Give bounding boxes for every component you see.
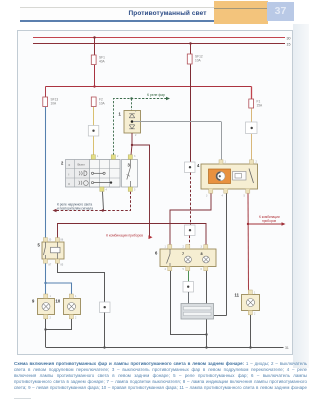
svg-text:и повторителям сигнала: и повторителям сигнала xyxy=(57,207,93,211)
svg-text:К реле фар: К реле фар xyxy=(147,93,165,97)
svg-text:2: 2 xyxy=(61,161,64,166)
svg-text:10A: 10A xyxy=(51,102,58,106)
svg-text:3: 3 xyxy=(134,155,136,158)
svg-text:9: 9 xyxy=(32,299,35,304)
svg-text:8: 8 xyxy=(201,252,203,256)
svg-text:30: 30 xyxy=(49,239,52,242)
svg-text:11: 11 xyxy=(235,293,240,298)
svg-text:1: 1 xyxy=(254,292,256,295)
svg-text:2: 2 xyxy=(254,313,256,316)
svg-text:10A: 10A xyxy=(195,59,202,63)
svg-text:87: 87 xyxy=(49,264,52,267)
svg-text:3: 3 xyxy=(201,246,203,249)
svg-text:1: 1 xyxy=(119,112,122,117)
svg-text:3: 3 xyxy=(206,195,208,198)
svg-text:приборов: приборов xyxy=(262,219,276,223)
svg-text:30: 30 xyxy=(287,37,291,41)
svg-text:2: 2 xyxy=(183,246,185,249)
svg-text:4: 4 xyxy=(165,268,167,271)
svg-text:6: 6 xyxy=(201,268,203,271)
svg-text:86: 86 xyxy=(61,239,64,242)
svg-text:5: 5 xyxy=(134,189,136,192)
svg-text:1: 1 xyxy=(165,246,167,249)
svg-text:Выкл: Выкл xyxy=(78,163,86,167)
svg-text:1: 1 xyxy=(50,295,52,298)
svg-text:6: 6 xyxy=(155,251,158,256)
svg-text:1: 1 xyxy=(97,155,99,158)
svg-text:5: 5 xyxy=(244,195,246,198)
svg-text:10A: 10A xyxy=(99,102,106,106)
svg-text:К комбинации приборов: К комбинации приборов xyxy=(106,234,143,238)
svg-text:40A: 40A xyxy=(99,60,106,64)
svg-text:5: 5 xyxy=(38,243,41,248)
svg-text:31: 31 xyxy=(285,346,289,350)
svg-text:2: 2 xyxy=(117,155,119,158)
svg-text:1: 1 xyxy=(75,295,77,298)
svg-text:2: 2 xyxy=(75,317,77,320)
svg-text:15A: 15A xyxy=(257,104,264,108)
svg-text:15: 15 xyxy=(287,43,291,47)
svg-text:4: 4 xyxy=(222,195,224,198)
svg-text:10: 10 xyxy=(56,299,61,304)
svg-text:85: 85 xyxy=(61,264,64,267)
svg-text:4: 4 xyxy=(106,189,108,192)
svg-text:5: 5 xyxy=(183,268,185,271)
svg-text:1: 1 xyxy=(225,161,227,164)
svg-text:2: 2 xyxy=(50,317,52,320)
svg-text:4: 4 xyxy=(197,163,200,168)
svg-text:7: 7 xyxy=(182,252,184,256)
svg-text:2: 2 xyxy=(135,134,137,137)
svg-text:II: II xyxy=(68,182,70,186)
svg-text:2: 2 xyxy=(256,161,258,164)
